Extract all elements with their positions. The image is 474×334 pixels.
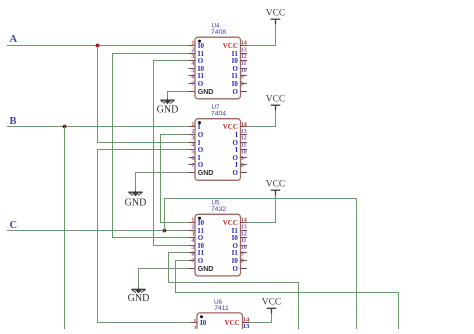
svg-text:GND: GND xyxy=(198,266,214,273)
U4 pin 10 (I1) xyxy=(232,68,247,80)
svg-text:12: 12 xyxy=(241,54,247,60)
U5 pin 5 (I1) xyxy=(189,245,205,257)
svg-text:12: 12 xyxy=(241,136,247,142)
svg-text:1: 1 xyxy=(191,218,194,224)
svg-text:I0: I0 xyxy=(232,257,239,265)
U5 pin 13 (I1) xyxy=(232,225,247,235)
svg-text:7432: 7432 xyxy=(211,206,226,213)
wire VCC to U5 pin 14 xyxy=(247,193,276,222)
svg-text:I1: I1 xyxy=(232,249,239,257)
svg-text:I0: I0 xyxy=(232,80,239,88)
U7 pin 5 (I) xyxy=(189,149,201,162)
svg-text:VCC: VCC xyxy=(262,297,282,307)
IC U4 7408 body xyxy=(195,37,241,99)
svg-text:VCC: VCC xyxy=(266,179,286,189)
U6 pin 1 marker dot xyxy=(200,315,203,318)
svg-text:I: I xyxy=(198,123,201,131)
IC U6 7411 body xyxy=(197,313,243,334)
U4 pin 8 (O) xyxy=(232,81,247,96)
wire U5 pin 7 to ground xyxy=(139,269,190,290)
svg-text:6: 6 xyxy=(191,75,194,81)
U7 pin 7 (GND) xyxy=(189,163,214,177)
U4 pin 5 (I1) xyxy=(189,68,205,80)
svg-text:I: I xyxy=(235,161,238,169)
svg-text:8: 8 xyxy=(241,259,244,265)
svg-text:14: 14 xyxy=(241,218,247,224)
svg-text:9: 9 xyxy=(241,252,244,258)
svg-text:O: O xyxy=(198,146,204,154)
svg-text:VCC: VCC xyxy=(266,94,286,104)
U4 pin 14 (VCC) xyxy=(223,41,247,50)
svg-text:13: 13 xyxy=(241,129,247,135)
U7 pin 10 (O) xyxy=(232,149,247,162)
svg-text:8: 8 xyxy=(241,81,244,87)
wire U4 pin 7 to ground xyxy=(168,92,190,100)
svg-text:O: O xyxy=(198,257,204,265)
U4 pin 3 (O) xyxy=(189,54,204,65)
U4 pin 1 marker dot xyxy=(198,40,201,43)
U7 pin 4 (O) xyxy=(189,143,204,154)
wire U4 pin 3 output to U5 pin 4 xyxy=(154,61,190,246)
ground symbol (U4) xyxy=(157,98,179,115)
svg-text:7: 7 xyxy=(191,81,194,87)
svg-text:13: 13 xyxy=(243,323,250,329)
svg-text:13: 13 xyxy=(241,225,247,231)
svg-text:9: 9 xyxy=(241,75,244,81)
wire net C branch up and right down to bottom (U6) xyxy=(165,199,357,330)
power symbol VCC (U7) xyxy=(266,94,286,110)
wire U7 pin 7 to ground xyxy=(136,173,190,192)
svg-text:I0: I0 xyxy=(198,42,205,50)
svg-text:GND: GND xyxy=(125,198,147,209)
svg-text:1: 1 xyxy=(193,319,196,325)
U4 pin 11 (O) xyxy=(232,61,247,73)
svg-text:2: 2 xyxy=(191,129,194,135)
svg-text:O: O xyxy=(198,57,204,65)
svg-text:11: 11 xyxy=(241,61,247,67)
U4 pin 7 (GND) xyxy=(189,81,214,96)
wire net A horizontal to U4 pin 1 xyxy=(7,45,190,47)
svg-text:O: O xyxy=(198,80,204,88)
U5 pin 10 (I1) xyxy=(232,245,247,257)
svg-text:7: 7 xyxy=(191,163,194,169)
svg-text:I1: I1 xyxy=(198,249,205,257)
U7 pin 11 (I) xyxy=(235,143,247,154)
wire net B horizontal to U7 pin 1 xyxy=(7,126,190,128)
svg-text:VCC: VCC xyxy=(223,42,238,50)
svg-text:9: 9 xyxy=(241,156,244,162)
svg-text:5: 5 xyxy=(191,68,194,74)
U4 pin 9 (I0) xyxy=(232,75,247,88)
U7 pin 1 marker dot xyxy=(198,121,201,124)
svg-text:A: A xyxy=(10,34,18,45)
U5 pin 6 (O) xyxy=(189,252,204,265)
U5 pin 2 (I1) xyxy=(189,225,205,235)
U5 pin 11 (O) xyxy=(232,238,247,250)
IC U7 7404 body xyxy=(195,119,241,181)
U7 pin 9 (I) xyxy=(235,156,247,169)
svg-text:VCC: VCC xyxy=(225,319,240,327)
svg-text:3: 3 xyxy=(191,231,194,237)
svg-text:14: 14 xyxy=(241,41,247,47)
svg-text:I1: I1 xyxy=(232,72,239,80)
U4 pin 4 (I0) xyxy=(189,61,205,73)
power symbol VCC (U4) xyxy=(266,8,286,24)
svg-text:11: 11 xyxy=(241,238,247,244)
svg-text:4: 4 xyxy=(191,238,194,244)
svg-text:1: 1 xyxy=(191,41,194,47)
U5 pin 4 (I0) xyxy=(189,238,205,250)
svg-text:GND: GND xyxy=(128,293,150,304)
wire VCC to U4 pin 14 xyxy=(247,24,276,46)
junction node B xyxy=(63,125,67,129)
svg-text:I0: I0 xyxy=(232,57,239,65)
IC U5 7432 body xyxy=(195,214,241,276)
svg-text:GND: GND xyxy=(198,89,214,96)
U7 pin 6 (O) xyxy=(189,156,204,169)
U7 pin 1 (I) xyxy=(189,122,201,131)
svg-text:6: 6 xyxy=(191,252,194,258)
svg-text:2: 2 xyxy=(191,47,194,53)
wire U5 pin 3 output to U4 pin 2 xyxy=(113,54,190,238)
svg-text:I0: I0 xyxy=(232,234,239,242)
junction node A xyxy=(96,44,100,48)
svg-text:O: O xyxy=(198,131,204,139)
svg-text:6: 6 xyxy=(191,156,194,162)
U5 pin 8 (O) xyxy=(232,259,247,273)
svg-text:13: 13 xyxy=(241,47,247,53)
U4 pin 2 (I1) xyxy=(189,47,205,58)
ground symbol (U7) xyxy=(125,190,147,208)
svg-text:O: O xyxy=(232,265,238,273)
svg-text:8: 8 xyxy=(241,163,244,169)
wire U7 pin 4 output to U6 pin 1 xyxy=(98,150,192,323)
U4 pin 12 (I0) xyxy=(232,54,247,65)
wire net B branch down to bottom (U6) xyxy=(64,127,66,330)
wire net A branch down to U7 pin 3 xyxy=(98,46,190,143)
svg-text:4: 4 xyxy=(191,61,194,67)
ground symbol (U5) xyxy=(128,287,150,304)
svg-text:I0: I0 xyxy=(198,219,205,227)
svg-text:4: 4 xyxy=(191,143,194,149)
wire VCC to U7 pin 14 xyxy=(247,109,276,127)
svg-text:I0: I0 xyxy=(200,319,207,327)
U6 pin 1 (I0) xyxy=(191,319,207,327)
wire VCC to U6 pin 14 xyxy=(249,311,272,322)
svg-text:10: 10 xyxy=(241,149,247,155)
U5 pin 7 (GND) xyxy=(189,259,214,273)
U7 pin 2 (O) xyxy=(189,129,204,139)
svg-text:I1: I1 xyxy=(198,72,205,80)
wire U5 pin 5 to right vertical (U6) xyxy=(169,253,299,330)
svg-text:3: 3 xyxy=(191,136,194,142)
svg-text:7408: 7408 xyxy=(211,29,226,36)
U7 pin 8 (O) xyxy=(232,163,247,177)
svg-text:GND: GND xyxy=(157,105,179,116)
U4 pin 13 (I1) xyxy=(232,47,247,58)
svg-text:GND: GND xyxy=(198,170,214,177)
U5 pin 9 (I0) xyxy=(232,252,247,265)
U7 pin 14 (VCC) xyxy=(223,122,247,131)
wire U5 pin 6 output long to right (U6) xyxy=(176,261,399,330)
svg-text:I: I xyxy=(235,146,238,154)
svg-text:VCC: VCC xyxy=(223,219,238,227)
power symbol VCC (U6) xyxy=(262,297,282,313)
wire net C horizontal to U5 pin 2 xyxy=(7,230,190,232)
U7 pin 12 (O) xyxy=(232,136,247,147)
svg-text:14: 14 xyxy=(241,122,247,128)
U5 pin 1 marker dot xyxy=(198,217,201,220)
svg-text:VCC: VCC xyxy=(266,8,286,18)
svg-text:I: I xyxy=(235,131,238,139)
svg-text:11: 11 xyxy=(241,143,247,149)
svg-text:5: 5 xyxy=(191,149,194,155)
U4 pin 6 (O) xyxy=(189,75,204,88)
power symbol VCC (U5) xyxy=(266,179,286,195)
svg-text:7411: 7411 xyxy=(214,305,229,312)
U5 pin 1 (I0) xyxy=(189,218,205,227)
svg-text:1: 1 xyxy=(191,122,194,128)
svg-text:O: O xyxy=(232,169,238,177)
svg-text:5: 5 xyxy=(191,245,194,251)
svg-text:O: O xyxy=(198,161,204,169)
svg-text:7404: 7404 xyxy=(211,111,226,118)
svg-text:VCC: VCC xyxy=(223,123,238,131)
svg-text:10: 10 xyxy=(241,68,247,74)
U5 pin 3 (O) xyxy=(189,231,204,242)
svg-text:12: 12 xyxy=(241,231,247,237)
U7 pin 13 (I) xyxy=(235,129,247,139)
U7 pin 3 (I) xyxy=(189,136,201,147)
junction node C xyxy=(163,229,167,233)
svg-text:O: O xyxy=(232,88,238,96)
U4 pin 1 (I0) xyxy=(189,41,205,50)
svg-text:2: 2 xyxy=(191,225,194,231)
svg-text:3: 3 xyxy=(191,54,194,60)
svg-text:B: B xyxy=(10,116,17,127)
svg-text:C: C xyxy=(10,220,18,231)
U6 pin 14 (VCC) xyxy=(225,316,251,327)
svg-text:7: 7 xyxy=(191,259,194,265)
svg-text:10: 10 xyxy=(241,245,247,251)
U5 pin 12 (I0) xyxy=(232,231,247,242)
svg-text:O: O xyxy=(198,234,204,242)
wire U7 pin 2 output to U5 pin 1 xyxy=(161,135,190,223)
U5 pin 14 (VCC) xyxy=(223,218,247,227)
